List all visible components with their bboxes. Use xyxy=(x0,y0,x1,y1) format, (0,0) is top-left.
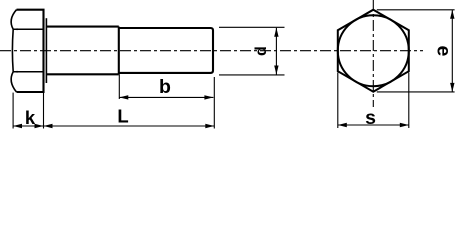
threaded portion outline xyxy=(119,28,213,73)
chamfer circle (inscribed) xyxy=(338,15,409,86)
shank top line xyxy=(46,26,118,28)
svg-text:k: k xyxy=(25,107,36,128)
svg-text:s: s xyxy=(365,107,376,129)
extension line e bottom xyxy=(377,91,455,93)
dimension d line with arrows xyxy=(275,28,277,75)
extension line s right xyxy=(408,73,410,129)
vertical centerline (end view, dash-dot) xyxy=(372,0,374,107)
extension line s left xyxy=(337,73,339,129)
svg-text:d: d xyxy=(253,46,270,56)
lower cusp wedge xyxy=(13,71,18,73)
dimension b line with arrows xyxy=(119,96,213,98)
dimension s line with arrows xyxy=(338,124,409,126)
upper cusp wedge xyxy=(13,28,18,30)
extension line b left xyxy=(118,74,120,99)
extension line b and L right xyxy=(213,77,215,129)
head lower facet line xyxy=(13,71,43,73)
thread runout line xyxy=(118,27,120,75)
dimension k line with arrows xyxy=(13,125,44,127)
hex head outline (end view) xyxy=(338,10,409,92)
washer face line xyxy=(45,18,47,83)
extension line d top xyxy=(219,26,285,28)
extension line k left xyxy=(12,93,14,129)
extension line d bottom xyxy=(219,74,285,76)
bolt head outline (side view) xyxy=(17,10,44,92)
bolt head chamfered left profile (three arcs) xyxy=(11,10,16,92)
svg-text:b: b xyxy=(159,76,171,98)
dimension L line with arrows xyxy=(44,125,215,127)
centerline (bolt axis, dash-dot, both views) xyxy=(0,50,423,52)
svg-text:L: L xyxy=(117,105,128,126)
dimension e line with arrows xyxy=(451,10,453,92)
svg-text:e: e xyxy=(432,46,454,57)
head upper facet line xyxy=(13,28,43,30)
extension line e top xyxy=(377,9,455,11)
extension line k and L shared xyxy=(43,93,45,129)
shank bottom line xyxy=(46,73,118,75)
